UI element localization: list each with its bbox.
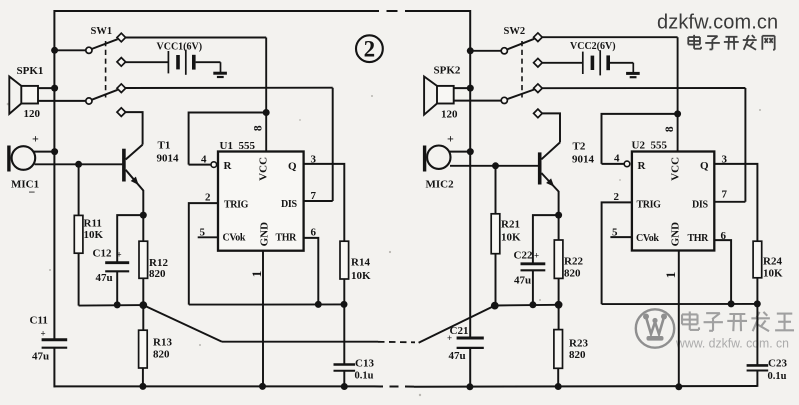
wire R11 top (78, 164, 80, 215)
resistor R13 (139, 330, 148, 368)
op-amp U1 555 box (218, 152, 304, 251)
svg-text:R14: R14 (351, 257, 370, 269)
wire pin4 loop right (602, 114, 678, 164)
wire pin1 GND down (262, 251, 264, 387)
svg-text:47u: 47u (514, 275, 531, 287)
resistor R12 (139, 241, 148, 278)
wire SW1-D to T1 collector (125, 112, 142, 145)
svg-text:1: 1 (663, 272, 678, 279)
resistor R23 (554, 330, 563, 369)
wire pin8 vertical right (677, 37, 679, 151)
svg-text:C11: C11 (30, 315, 48, 327)
node A bias line (79, 304, 144, 307)
site watermark 电子开发网 (693, 35, 695, 45)
svg-text:3: 3 (722, 153, 728, 165)
svg-text:820: 820 (149, 268, 166, 280)
svg-text:GND: GND (259, 222, 271, 247)
transistor T2 base bar (538, 152, 542, 184)
svg-text:4: 4 (614, 153, 620, 165)
svg-text:6: 6 (721, 230, 727, 242)
wire SW2 to battery VCC2 (542, 62, 582, 64)
wire MIC1 plus to rail (34, 151, 54, 153)
svg-text:SPK2: SPK2 (434, 65, 461, 77)
SW1 upper lever (92, 39, 118, 49)
wire pin7 DIS right (714, 201, 745, 203)
svg-text:VCC2(6V): VCC2(6V) (570, 41, 616, 52)
SW2 gang dashed link (521, 41, 523, 98)
junction node A center (139, 301, 147, 309)
svg-text:Q: Q (700, 160, 709, 172)
op-amp U2 555 box (632, 152, 714, 251)
left ground rail dashes (374, 385, 414, 387)
svg-text:R: R (224, 160, 233, 172)
junction R14-nodeB (341, 301, 348, 308)
capacitor C11 (42, 338, 68, 341)
wire R12 to R13 (142, 278, 144, 330)
microphone MIC1 (7, 146, 10, 172)
wire T1 emitter down (142, 190, 144, 241)
wire C12 bottom (116, 271, 118, 305)
ground symbol right (632, 63, 634, 74)
svg-text:U2 555: U2 555 (632, 140, 668, 152)
svg-text:0.1u: 0.1u (355, 371, 374, 382)
svg-text:2: 2 (614, 191, 620, 203)
svg-text:VCC1(6V): VCC1(6V) (157, 42, 203, 53)
SW2 throw contact A (534, 33, 543, 42)
pin 4 bubble right (624, 161, 630, 167)
resistor R21 (491, 214, 500, 254)
svg-text:R23: R23 (569, 338, 588, 350)
wire C22 branch (533, 215, 559, 264)
top border dashed middle (368, 10, 410, 12)
interlink wire right diagonal (419, 306, 495, 343)
svg-text:5: 5 (200, 227, 206, 239)
svg-text:R24: R24 (763, 256, 782, 268)
svg-text:Q: Q (288, 160, 297, 172)
svg-text:2: 2 (364, 37, 376, 62)
battery VCC2 (582, 52, 584, 74)
svg-text:7: 7 (722, 189, 728, 201)
svg-text:R21: R21 (501, 219, 520, 231)
svg-text:2: 2 (205, 192, 211, 204)
junction pin1-ground rail (259, 383, 266, 390)
junction SW1 common upper (51, 47, 58, 54)
junction pin6-nodeB right (728, 300, 735, 307)
wire pin5 stub (198, 236, 218, 238)
wire R21 top (495, 166, 497, 214)
svg-text:4: 4 (201, 154, 207, 166)
wire pin6 THR right (714, 240, 731, 304)
right supply rail vertical (469, 10, 471, 338)
wire T2 emitter down (558, 191, 560, 240)
watermark text 电子开发王 (689, 311, 691, 324)
junction C21-ground rail (466, 383, 473, 390)
svg-text:9014: 9014 (157, 153, 180, 165)
svg-text:SW1: SW1 (91, 26, 113, 37)
capacitor C12 (105, 261, 129, 264)
pin 4 bubble (211, 162, 217, 168)
junction emitter-C22 (555, 212, 562, 219)
SW1 throw contact D (117, 108, 126, 117)
top border wire right (410, 10, 471, 12)
svg-text:R13: R13 (153, 337, 172, 349)
svg-text:R: R (638, 160, 647, 172)
microphone MIC2 (423, 146, 426, 172)
capacitor C23 (747, 364, 769, 367)
wire pin3 Q right (714, 164, 757, 241)
svg-text:+: + (447, 333, 452, 343)
wire pin6 THR (304, 238, 319, 305)
SW2 upper lever (507, 39, 534, 50)
svg-text:47u: 47u (96, 272, 113, 284)
wire R22 to R23 (558, 278, 560, 329)
svg-text:C23: C23 (768, 358, 787, 370)
svg-text:DIS: DIS (692, 200, 709, 211)
wire R21 bottom (495, 254, 497, 306)
wire pin4 loop (211, 164, 216, 166)
svg-text:GND: GND (670, 222, 682, 247)
svg-text:U1 555: U1 555 (220, 140, 256, 152)
speaker SPK1 (21, 86, 38, 104)
svg-text:820: 820 (569, 349, 586, 361)
svg-text:9014: 9014 (572, 154, 595, 166)
svg-text:SPK1: SPK1 (17, 65, 44, 77)
wire SPK2 top to rail (454, 87, 471, 89)
SW1 upper common contact (86, 47, 92, 53)
wire battery2 to ground (610, 62, 633, 64)
transistor T1 base bar (122, 149, 126, 182)
svg-text:+: + (534, 251, 539, 261)
junction MIC2-rail (467, 148, 474, 155)
wire SPK1 top to rail (38, 87, 54, 89)
svg-text:0.1u: 0.1u (768, 371, 787, 382)
svg-text:10K: 10K (501, 232, 521, 244)
svg-text:6: 6 (311, 227, 317, 239)
svg-text:CVok: CVok (223, 233, 246, 244)
junction C13-ground rail (341, 383, 348, 390)
wire pin1 GND down right (678, 251, 680, 387)
junction MIC1-rail (51, 148, 58, 155)
svg-text:−: − (29, 185, 36, 199)
svg-text:C21: C21 (450, 325, 469, 337)
SW2 lower common contact (501, 97, 507, 103)
wire C22 bottom (532, 270, 534, 305)
svg-text:3: 3 (311, 153, 317, 165)
wire DIS vertical right (744, 88, 746, 202)
resistor R22 (554, 240, 563, 278)
wire pin2 right (602, 202, 632, 304)
svg-text:TRIG: TRIG (224, 200, 249, 211)
svg-text:VCC: VCC (258, 157, 270, 181)
svg-text:47u: 47u (449, 350, 466, 362)
top border wire left (54, 10, 368, 12)
wire R13 bottom (142, 368, 144, 386)
wire rail to SW1 upper common (54, 49, 85, 51)
svg-text:THR: THR (688, 233, 710, 244)
resistor R11 (74, 215, 83, 253)
svg-text:7: 7 (311, 190, 317, 202)
svg-text:dzkfw.com.cn: dzkfw.com.cn (657, 12, 778, 34)
SW1 throw contact C (117, 84, 126, 93)
svg-text:120: 120 (24, 108, 41, 120)
svg-text:T2: T2 (573, 141, 586, 153)
wire C13 bottom (343, 371, 345, 389)
svg-text:+: + (41, 329, 46, 339)
svg-text:+: + (117, 250, 122, 260)
svg-text:10K: 10K (84, 229, 104, 241)
T2 emitter (541, 173, 558, 192)
wire pin8 vertical (265, 38, 267, 152)
wire MIC2 to T2 base (450, 165, 538, 167)
svg-text:C12: C12 (93, 248, 112, 260)
junction emitter-C12 (140, 212, 147, 219)
wire C11 to ground rail (53, 348, 55, 388)
wire SW2-A to U2 pin8 corner (542, 36, 678, 38)
T1 collector (126, 145, 143, 160)
wire R14 bottom (343, 279, 345, 365)
speaker SPK2 (437, 86, 454, 104)
T2 collector (541, 142, 560, 159)
left ground rail (54, 385, 375, 387)
circled 2 marker (356, 35, 383, 62)
wire SW1 to battery VCC1 (126, 61, 168, 63)
wire SPK2 bottom to SW2 (454, 100, 502, 102)
battery VCC1 (167, 51, 169, 73)
wire SW2-D to T2 collector (542, 113, 560, 142)
junction SW2 common upper (467, 47, 474, 54)
T1 emitter (126, 170, 144, 191)
right ground rail (414, 385, 757, 388)
svg-text:THR: THR (276, 233, 298, 244)
svg-text:820: 820 (153, 349, 170, 361)
SW1 lower common contact (86, 98, 92, 104)
junction base-R21 (492, 162, 499, 169)
junction SPK2-rail (467, 85, 474, 92)
svg-text:CVok: CVok (636, 233, 659, 244)
svg-text:47u: 47u (32, 351, 49, 363)
wire pin5 stub right (610, 236, 632, 238)
svg-text:VCC: VCC (670, 157, 682, 181)
node B right timing line (602, 303, 758, 305)
interlink wire left diagonal (143, 305, 222, 342)
svg-text:120: 120 (441, 109, 458, 121)
left supply rail vertical (53, 10, 55, 340)
svg-text:MIC2: MIC2 (426, 179, 455, 191)
wire R23 bottom (557, 368, 559, 386)
svg-text:5: 5 (612, 227, 618, 239)
wire SPK1 bottom to SW1 (38, 100, 86, 102)
wire pin2 (189, 203, 218, 305)
SW2 throw contact D (534, 109, 543, 118)
svg-text:DIS: DIS (281, 199, 298, 210)
wire SW2-C to DIS corner (542, 87, 745, 89)
wire R11 bottom (78, 253, 80, 305)
svg-text:820: 820 (564, 268, 581, 280)
wire MIC1 to T1 base (35, 163, 123, 165)
SW1 gang dashed link (105, 41, 107, 98)
capacitor C13 (334, 363, 356, 366)
ground symbol left (220, 62, 222, 73)
wire pin3 Q (304, 164, 345, 241)
svg-text:SW2: SW2 (504, 26, 526, 37)
junction R23-ground rail (555, 383, 562, 390)
junction R13-ground rail (139, 383, 146, 390)
SW1 lower lever (92, 90, 118, 100)
SW2 lower lever (507, 90, 534, 100)
svg-text:10K: 10K (351, 270, 371, 282)
wire R24 bottom (756, 278, 758, 366)
svg-text:8: 8 (253, 125, 265, 131)
junction base-R11 (75, 161, 82, 168)
junction node A right (491, 302, 499, 310)
wire SW1-A to U1 pin8 corner (125, 37, 266, 39)
interlink wire left horizontal (222, 341, 378, 343)
wire DIS vertical (332, 88, 334, 201)
junction pin6-nodeB (315, 301, 322, 308)
node A right bias line (496, 304, 559, 307)
svg-text:8: 8 (664, 126, 676, 132)
junction SPK1-rail (51, 85, 58, 92)
junction pin1-ground rail right (675, 383, 682, 390)
wire pin7 DIS (304, 200, 333, 202)
wire rail to SW2 upper common (470, 50, 501, 52)
SW2 upper common contact (501, 48, 507, 54)
svg-text:R11: R11 (84, 218, 102, 230)
wire battery to ground (196, 61, 221, 63)
capacitor C22 (521, 262, 546, 265)
resistor R24 (753, 241, 762, 278)
svg-text:R22: R22 (564, 256, 583, 268)
wire C23 bottom (756, 371, 758, 387)
svg-text:+: + (447, 132, 454, 146)
svg-text:C22: C22 (514, 250, 533, 262)
svg-text:10K: 10K (763, 268, 783, 280)
svg-text:TRIG: TRIG (637, 200, 662, 211)
svg-text:+: + (32, 132, 39, 146)
SW2 throw contact B (534, 58, 543, 67)
SW1 throw contact A (117, 33, 126, 42)
junction C12-nodeA (114, 301, 121, 308)
wire SW1-C to DIS corner (125, 87, 332, 89)
node B timing line (189, 303, 344, 305)
wire C12 branch (117, 215, 143, 263)
junction pin8/pin4 loop right (674, 110, 681, 117)
svg-text:1: 1 (249, 271, 264, 278)
resistor R14 (340, 241, 349, 279)
junction R24-nodeB2 (754, 300, 761, 307)
watermark logo circle (636, 309, 674, 347)
wire MIC2 plus to rail (450, 151, 470, 153)
capacitor C21 (457, 337, 484, 340)
SW1 throw contact B (117, 58, 126, 67)
wire C21 to ground rail (469, 348, 471, 387)
junction C22-nodeA2 (529, 301, 536, 308)
SW2 throw contact C (534, 84, 543, 93)
svg-text:www. dzkfw. com. cn: www. dzkfw. com. cn (675, 336, 789, 351)
svg-text:C13: C13 (355, 358, 374, 370)
interlink dashes (378, 341, 415, 344)
svg-text:T1: T1 (158, 139, 171, 151)
junction pin8/pin4 loop (263, 109, 270, 116)
